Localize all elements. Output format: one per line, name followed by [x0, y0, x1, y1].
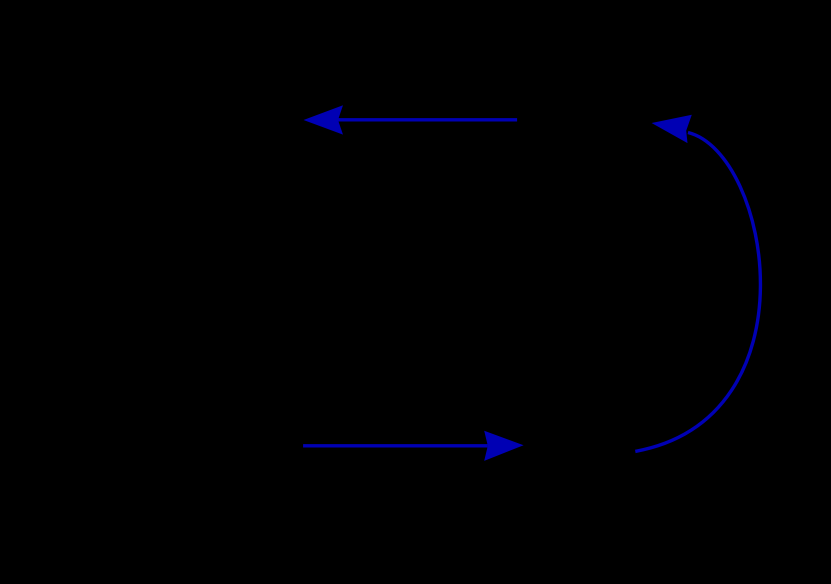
top arrow head — [304, 105, 344, 134]
curved arrow shaft — [635, 133, 760, 452]
top arrow shaft — [338, 118, 517, 121]
curved arrow head — [652, 115, 692, 143]
bottom arrow head — [484, 431, 523, 461]
bottom arrow (points right) — [303, 431, 523, 461]
bottom arrow shaft — [303, 444, 488, 447]
top arrow (points left) — [304, 105, 518, 134]
curved return arrow (right side, points up-left) — [635, 115, 760, 452]
